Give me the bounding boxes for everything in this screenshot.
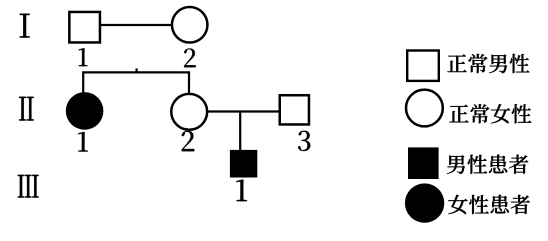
generation label II [19,97,34,121]
individual II-1: affected female filled circle [66,92,104,130]
label 3 under II-3 [298,131,310,151]
label 1 under III-1 [236,180,247,202]
individual I-1: normal male square [69,12,100,43]
legend symbol: normal male square [407,51,439,81]
wire: marriage line I-1 to I-2 [101,24,172,26]
label 2 under I-2 [184,48,196,67]
individual II-3: normal male square [280,95,309,124]
label 1 under I-1 [79,48,88,66]
individual II-2: normal female circle [171,94,207,130]
legend text: 男性患者 (male patient) [447,155,528,174]
wire: descent stub from I couple midpoint to sibship line [136,68,138,73]
wire: sibship line with descent drops to II-1 and II-2 [83,72,189,93]
legend symbol: normal female circle [406,90,443,127]
legend text: 正常女性 (normal female) [449,104,531,123]
individual III-1: affected male filled square [230,150,257,178]
wire: descent line from II-2/II-3 couple to III-1 [239,113,241,150]
generation label III [18,175,39,198]
legend text: 正常男性 (normal male) [447,54,529,73]
wire: marriage line II-2 to II-3 [208,110,280,112]
generation label I [20,14,30,38]
legend symbol: affected male filled square [408,147,439,179]
label 2 under II-2 [182,131,194,151]
legend symbol: affected female filled circle [405,183,444,222]
individual I-2: normal female circle [172,7,208,43]
legend text: 女性患者 (female patient) [448,195,530,214]
label 1 under II-1 [78,132,88,152]
